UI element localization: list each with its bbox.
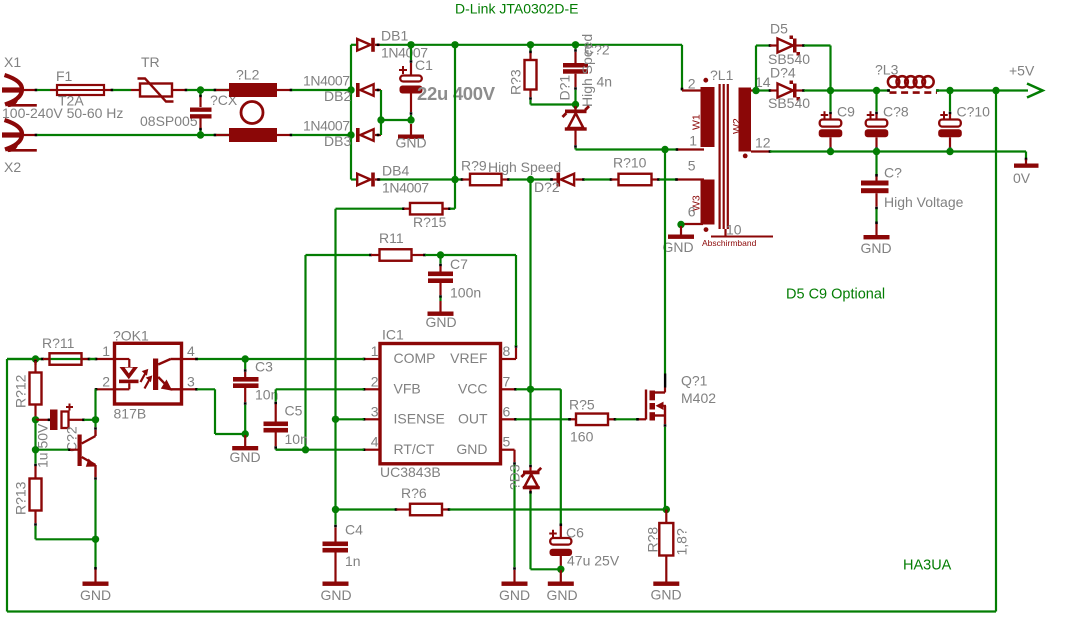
svg-text:1: 1 bbox=[102, 343, 110, 359]
svg-text:1N4007: 1N4007 bbox=[382, 180, 429, 196]
svg-text:1u 50V: 1u 50V bbox=[35, 423, 51, 468]
svg-text:1,8?: 1,8? bbox=[674, 528, 690, 555]
svg-text:?D3: ?D3 bbox=[507, 464, 523, 490]
svg-text:R?6: R?6 bbox=[401, 485, 427, 501]
svg-text:1n: 1n bbox=[345, 553, 361, 569]
svg-text:HA3UA: HA3UA bbox=[903, 558, 952, 574]
svg-text:GND: GND bbox=[320, 587, 351, 603]
svg-text:12: 12 bbox=[755, 135, 771, 151]
svg-text:+5V: +5V bbox=[1009, 63, 1035, 79]
svg-text:10n: 10n bbox=[285, 431, 308, 447]
svg-text:R?10: R?10 bbox=[613, 155, 647, 171]
svg-text:C6: C6 bbox=[566, 525, 584, 541]
svg-text:2: 2 bbox=[371, 373, 379, 389]
svg-text:High Speed: High Speed bbox=[579, 34, 595, 107]
svg-text:R?9: R?9 bbox=[461, 158, 487, 174]
svg-text:GND: GND bbox=[229, 449, 260, 465]
svg-text:R?8: R?8 bbox=[645, 527, 661, 553]
svg-text:D5: D5 bbox=[770, 21, 788, 37]
svg-text:GND: GND bbox=[456, 441, 487, 457]
svg-text:3: 3 bbox=[371, 403, 379, 419]
svg-text:R?13: R?13 bbox=[13, 481, 29, 515]
svg-text:GND: GND bbox=[499, 587, 530, 603]
svg-text:ISENSE: ISENSE bbox=[394, 410, 445, 426]
svg-text:100n: 100n bbox=[450, 285, 481, 301]
svg-text:10: 10 bbox=[726, 222, 742, 238]
svg-text:C5: C5 bbox=[285, 403, 303, 419]
svg-text:08SP005: 08SP005 bbox=[140, 113, 198, 129]
svg-text:COMP: COMP bbox=[394, 350, 436, 366]
svg-text:7: 7 bbox=[503, 373, 511, 389]
svg-text:VREF: VREF bbox=[450, 350, 487, 366]
svg-text:X1: X1 bbox=[4, 54, 21, 70]
svg-text:W1: W1 bbox=[691, 114, 703, 130]
svg-text:VFB: VFB bbox=[394, 380, 421, 396]
svg-text:GND: GND bbox=[662, 239, 693, 255]
svg-text:22u 400V: 22u 400V bbox=[417, 83, 496, 104]
svg-text:C3: C3 bbox=[255, 359, 273, 375]
svg-text:100-240V 50-60 Hz: 100-240V 50-60 Hz bbox=[2, 105, 123, 121]
svg-text:Abschirmband: Abschirmband bbox=[702, 238, 757, 248]
svg-text:6: 6 bbox=[503, 403, 511, 419]
svg-text:160: 160 bbox=[570, 429, 594, 445]
svg-text:C4: C4 bbox=[345, 522, 363, 538]
svg-text:GND: GND bbox=[80, 587, 111, 603]
svg-text:Q?1: Q?1 bbox=[681, 373, 708, 389]
svg-text:4n: 4n bbox=[597, 74, 613, 90]
svg-text:D?1: D?1 bbox=[557, 75, 573, 101]
svg-text:C?: C? bbox=[884, 165, 902, 181]
svg-text:2: 2 bbox=[688, 76, 696, 92]
svg-text:C1: C1 bbox=[415, 57, 433, 73]
svg-text:C7: C7 bbox=[450, 256, 468, 272]
svg-text:3: 3 bbox=[187, 373, 195, 389]
svg-text:R?3: R?3 bbox=[508, 69, 524, 95]
svg-text:D?4: D?4 bbox=[770, 65, 796, 81]
svg-text:0V: 0V bbox=[1013, 170, 1031, 186]
svg-text:GND: GND bbox=[650, 587, 681, 603]
svg-text:F1: F1 bbox=[56, 68, 73, 84]
svg-text:W2: W2 bbox=[731, 118, 743, 134]
svg-text:?OK1: ?OK1 bbox=[113, 328, 149, 344]
svg-text:GND: GND bbox=[425, 314, 456, 330]
svg-text:817B: 817B bbox=[114, 406, 147, 422]
svg-text:High Speed: High Speed bbox=[488, 159, 561, 175]
svg-text:1N4007: 1N4007 bbox=[303, 73, 350, 89]
svg-text:RT/CT: RT/CT bbox=[394, 441, 435, 457]
svg-text:5: 5 bbox=[503, 434, 511, 450]
svg-text:R?11: R?11 bbox=[42, 335, 75, 351]
svg-text:M402: M402 bbox=[681, 390, 716, 406]
svg-text:R?12: R?12 bbox=[13, 374, 29, 408]
svg-text:?L3: ?L3 bbox=[875, 62, 899, 78]
svg-text:X2: X2 bbox=[4, 159, 21, 175]
svg-text:DB4: DB4 bbox=[382, 163, 409, 179]
svg-text:R?5: R?5 bbox=[569, 397, 595, 413]
svg-text:DB1: DB1 bbox=[381, 28, 408, 44]
svg-text:?L2: ?L2 bbox=[236, 67, 260, 83]
svg-text:GND: GND bbox=[546, 587, 577, 603]
svg-text:4: 4 bbox=[187, 343, 195, 359]
svg-text:5: 5 bbox=[688, 158, 696, 174]
svg-text:1: 1 bbox=[689, 133, 697, 149]
svg-text:C?8: C?8 bbox=[883, 104, 909, 120]
svg-text:1N4007: 1N4007 bbox=[303, 118, 350, 134]
svg-text:UC3843B: UC3843B bbox=[380, 464, 441, 480]
svg-text:OUT: OUT bbox=[458, 410, 488, 426]
svg-text:GND: GND bbox=[395, 135, 426, 151]
svg-text:?L1: ?L1 bbox=[710, 67, 734, 83]
svg-text:High Voltage: High Voltage bbox=[884, 194, 964, 210]
svg-text:SB540: SB540 bbox=[768, 95, 810, 111]
svg-text:C?10: C?10 bbox=[957, 104, 991, 120]
svg-text:D?2: D?2 bbox=[534, 179, 560, 195]
svg-text:VCC: VCC bbox=[458, 380, 488, 396]
svg-text:R11: R11 bbox=[379, 230, 404, 246]
svg-text:TR: TR bbox=[141, 54, 160, 70]
svg-text:IC1: IC1 bbox=[382, 327, 404, 343]
svg-text:D5 C9 Optional: D5 C9 Optional bbox=[786, 287, 885, 303]
svg-text:4: 4 bbox=[371, 434, 379, 450]
svg-text:C9: C9 bbox=[837, 104, 855, 120]
svg-text:2: 2 bbox=[102, 373, 110, 389]
svg-text:8: 8 bbox=[503, 343, 511, 359]
svg-text:47u 25V: 47u 25V bbox=[567, 553, 620, 569]
svg-text:R?15: R?15 bbox=[413, 214, 447, 230]
svg-text:DB3: DB3 bbox=[324, 133, 351, 149]
svg-text:D-Link JTA0302D-E: D-Link JTA0302D-E bbox=[455, 1, 578, 17]
svg-text:1: 1 bbox=[371, 343, 379, 359]
svg-text:6: 6 bbox=[688, 204, 696, 220]
svg-text:C?2: C?2 bbox=[64, 426, 80, 452]
svg-text:GND: GND bbox=[860, 240, 891, 256]
svg-text:DB2: DB2 bbox=[324, 88, 351, 104]
